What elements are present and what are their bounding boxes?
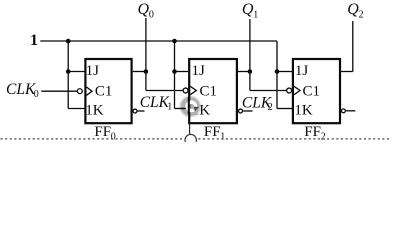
svg-text:Q: Q	[138, 1, 150, 18]
wire FF0 J/K drop vertical	[67, 41, 69, 109]
svg-text:2: 2	[268, 102, 273, 113]
node junction FF0 J	[66, 69, 71, 74]
svg-text:1: 1	[30, 32, 38, 49]
FF0 clock inversion bubble	[77, 89, 82, 94]
wire Q0 to CLK1 vertical	[145, 72, 147, 91]
wire FF0 Qbar stub	[138, 110, 145, 112]
marker pin stem	[189, 123, 191, 135]
flip-flop FF0 box	[85, 59, 131, 123]
wire FF1 J/K drop vertical	[174, 41, 176, 109]
svg-text:FF: FF	[94, 124, 111, 140]
node junction FF1 J	[172, 69, 177, 74]
wire FF0 J input	[68, 71, 84, 73]
node junction bus-FF0	[66, 39, 71, 44]
svg-text:C1: C1	[303, 84, 321, 100]
wire FF2 Q output	[341, 71, 353, 73]
wire Q1 to CLK2 vertical	[249, 72, 251, 91]
wire FF1 K input overlay on disc	[181, 108, 185, 110]
svg-text:FF: FF	[304, 124, 321, 140]
svg-text:1J: 1J	[86, 63, 100, 79]
svg-text:Q: Q	[347, 1, 359, 18]
FF0 Qbar bubble	[133, 109, 137, 113]
svg-text:C1: C1	[200, 84, 218, 100]
watermark white ring (rotate icon)	[187, 102, 195, 110]
svg-text:2: 2	[321, 131, 326, 142]
wire FF2 Qbar stub	[346, 110, 355, 112]
marker handle circle on dashed line	[185, 134, 196, 145]
svg-text:1: 1	[253, 9, 258, 20]
svg-text:1K: 1K	[294, 102, 313, 118]
FF1 clock edge triangle	[190, 86, 196, 94]
node junction bus-FF1	[172, 39, 177, 44]
wire CLK2 horizontal	[250, 90, 286, 92]
wire FF0 K input	[68, 108, 84, 110]
wire FF1 Q output	[238, 71, 250, 73]
wire FF1 K input	[175, 108, 189, 110]
wire CLK1 horizontal	[146, 90, 183, 92]
wire Q0 riser	[145, 18, 147, 72]
node junction Q0	[144, 69, 149, 74]
svg-text:1K: 1K	[85, 102, 104, 118]
svg-text:Q: Q	[242, 1, 254, 18]
wire 1-bus horizontal	[40, 40, 277, 42]
FF2 clock inversion bubble	[287, 88, 292, 93]
FF1 Qbar bubble	[239, 109, 243, 113]
wire FF0 Q output	[133, 71, 146, 73]
svg-text:0: 0	[149, 9, 154, 20]
node junction Q1	[248, 69, 253, 74]
wire FF1 J input	[175, 71, 189, 73]
svg-text:0: 0	[34, 89, 39, 100]
flip-flop FF2 box	[293, 59, 340, 123]
svg-text:1: 1	[167, 101, 172, 112]
flip-flop FF1 box	[189, 59, 237, 123]
wire Q1 riser	[249, 19, 251, 72]
wire CLK0 input	[41, 90, 77, 92]
svg-text:1J: 1J	[192, 63, 206, 79]
FF0 clock edge triangle	[87, 87, 93, 95]
wire FF1 Qbar stub	[243, 110, 252, 112]
svg-text:1J: 1J	[295, 63, 309, 79]
svg-text:FF: FF	[204, 124, 221, 140]
FF2 clock edge triangle	[294, 86, 300, 94]
FF1 left edge overlay through ring	[188, 97, 190, 114]
FF2 Qbar bubble	[341, 109, 345, 113]
svg-text:CLK: CLK	[6, 81, 36, 98]
svg-text:C1: C1	[95, 84, 113, 100]
svg-text:2: 2	[359, 10, 364, 21]
dashed baseline	[1, 138, 391, 140]
svg-text:0: 0	[111, 131, 116, 142]
node junction FF2 J	[275, 69, 280, 74]
wire FF2 K input	[277, 108, 292, 110]
svg-text:CLK: CLK	[140, 94, 170, 111]
wire FF2 J/K drop vertical	[276, 41, 278, 109]
watermark arrowhead	[194, 107, 199, 112]
wire Q2 riser	[352, 21, 354, 72]
wire FF2 J input	[277, 71, 292, 73]
FF1 clock inversion bubble	[183, 88, 188, 93]
svg-text:1: 1	[220, 131, 225, 142]
